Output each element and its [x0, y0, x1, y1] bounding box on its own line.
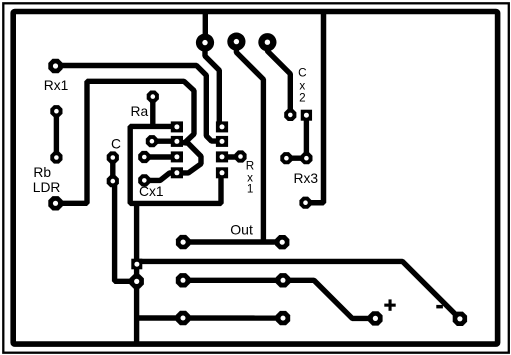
- pad Rx3 left: [280, 152, 292, 164]
- svg-text:x: x: [299, 80, 305, 93]
- pad plus: [368, 311, 382, 325]
- wire L4 stub: [144, 173, 177, 180]
- square junction: [131, 259, 142, 270]
- pad Rx1: [48, 59, 62, 73]
- pad R4 square: [216, 167, 228, 178]
- pad Out: [176, 235, 190, 249]
- pad L3 square: [171, 151, 183, 162]
- pad L1 square: [171, 121, 183, 132]
- pad L4 square: [171, 167, 183, 178]
- wire Rx3 body: [286, 115, 306, 158]
- wire Rx3 bottom pad to top rail: [306, 11, 324, 203]
- pad P2 big: [227, 33, 245, 51]
- pad Ra: [147, 91, 159, 103]
- pad row318 left: [176, 311, 190, 325]
- pad R x 1: [234, 150, 246, 162]
- pad P3 end: [284, 109, 296, 121]
- wire junction to board bottom: [134, 262, 139, 344]
- svg-text:C: C: [298, 67, 306, 80]
- wire main net L1 around to R4: [130, 126, 221, 203]
- pad row3 left: [138, 151, 150, 163]
- pad P3 big: [258, 33, 276, 51]
- wire drop to square junction: [134, 203, 139, 261]
- wire capacitor C body and down to junction pad: [113, 158, 137, 282]
- pad P1 big: [196, 34, 214, 52]
- pad Rb bottom: [50, 151, 62, 163]
- pad Rx3 right: [300, 152, 312, 164]
- svg-text:1: 1: [247, 182, 254, 195]
- svg-text:Out: Out: [230, 221, 253, 237]
- wire R3 stub: [222, 154, 241, 159]
- pad row280 right: [276, 273, 290, 287]
- pad row318 right: [276, 311, 290, 325]
- pad C top: [107, 151, 119, 163]
- pad Out right: [275, 235, 289, 249]
- pad R3 square: [216, 151, 228, 162]
- pad junction: [130, 274, 144, 288]
- wire Out trace: [183, 239, 282, 244]
- svg-text:Ra: Ra: [131, 104, 149, 119]
- label minus sign: [436, 305, 443, 309]
- wire row y280 to plus pad: [183, 280, 375, 318]
- wire bottom long trace to minus pad: [137, 261, 460, 318]
- pad minus: [453, 312, 467, 326]
- pad row4 left: [138, 174, 150, 186]
- wire L3 stub: [144, 154, 177, 159]
- wire Rx1 to R2: [56, 66, 218, 142]
- wire P3 to pad K: [267, 42, 290, 115]
- pad LDR: [48, 196, 62, 210]
- wire L2 stub: [152, 138, 177, 143]
- wire P2 to Out tee: [236, 42, 263, 243]
- wire LDR to L2: [55, 81, 194, 203]
- wire top rail to pad P1: [203, 11, 208, 42]
- svg-text:C: C: [111, 137, 121, 152]
- wire Rb body: [54, 111, 59, 157]
- pad R1 square: [216, 121, 228, 132]
- pad R2 square: [216, 136, 228, 147]
- pad C bottom: [107, 175, 119, 187]
- pad Rb top: [50, 105, 62, 117]
- wire L2 to L4 zigzag: [177, 142, 201, 173]
- pad row280 left: [176, 273, 190, 287]
- svg-text:LDR: LDR: [33, 180, 61, 195]
- svg-text:Rx3: Rx3: [294, 171, 319, 186]
- svg-text:Rb: Rb: [33, 165, 51, 180]
- pad Cx2 square: [301, 110, 312, 121]
- svg-text:Cx1: Cx1: [139, 184, 164, 199]
- pad Rx3 bottom: [299, 197, 311, 209]
- pad holes: [53, 63, 58, 68]
- wire Ra branch: [150, 97, 155, 127]
- pad row2 left: [146, 135, 158, 147]
- wire row y318: [137, 315, 283, 321]
- wire P1 to R1: [205, 43, 219, 127]
- svg-text:Rx1: Rx1: [44, 78, 69, 93]
- svg-text:2: 2: [299, 92, 306, 105]
- pad L2 square: [171, 136, 183, 147]
- label plus sign: [384, 299, 443, 310]
